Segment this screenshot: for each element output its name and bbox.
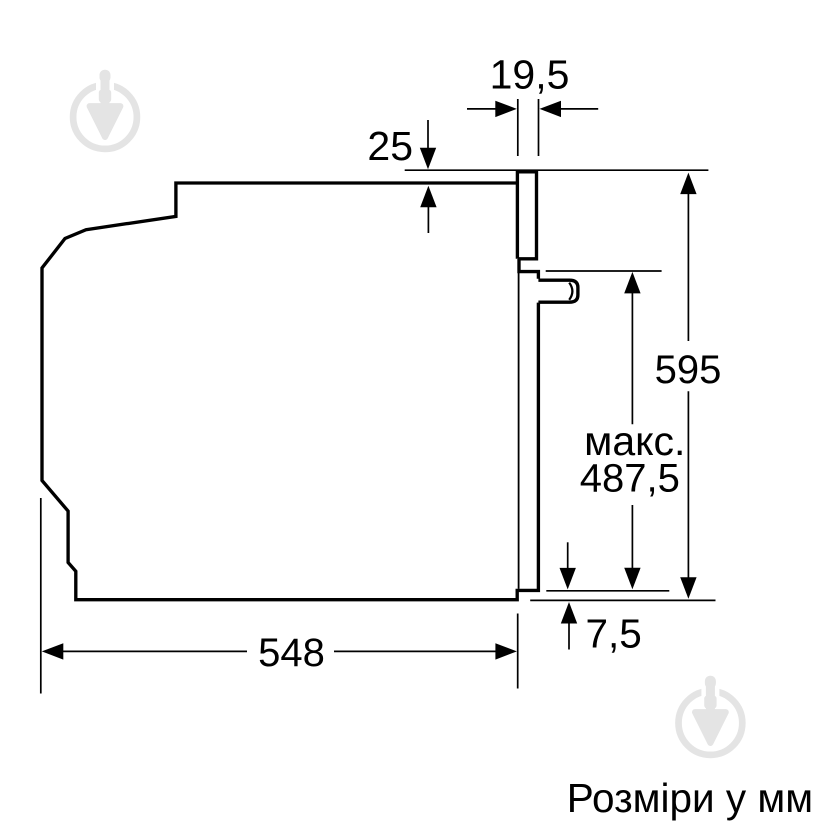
oven body outline (top, left side, bottom): [42, 183, 538, 600]
svg-text:7,5: 7,5: [586, 611, 642, 657]
dim 19,5 left extension line: [517, 99, 519, 156]
dim 19,5 right extension line: [538, 99, 540, 156]
dim 7,5 down arrow: [567, 542, 569, 570]
dim 548 left arrow: [42, 643, 64, 659]
svg-text:Розміри у мм: Розміри у мм: [567, 775, 813, 821]
dim 7,5 up arrow: [561, 602, 577, 624]
dim 595 line lower segment with bottom arrow: [687, 391, 689, 579]
dim 548 right arrow: [334, 650, 498, 652]
watermark trowel logo top-left: [73, 70, 137, 149]
dim 548 right extension line: [517, 614, 519, 689]
door edge step above handle: [519, 259, 538, 279]
svg-text:487,5: 487,5: [580, 457, 680, 501]
svg-text:548: 548: [258, 631, 325, 675]
dim 548 left extension line: [40, 498, 42, 694]
svg-text:25: 25: [367, 123, 413, 169]
extension line at door bottom (for dim 7,5): [546, 590, 669, 592]
door front thin line: [518, 272, 520, 589]
svg-text:19,5: 19,5: [490, 52, 570, 98]
svg-text:595: 595: [655, 348, 722, 392]
dim 487,5 line upper segment with top arrow: [631, 292, 633, 424]
dim 25 down arrow: [427, 120, 429, 150]
dim 19,5 left arrow: [467, 108, 499, 110]
extension line at handle top (for dim 487,5): [546, 270, 662, 272]
door handle: [538, 280, 578, 302]
dim 19,5 right arrow: [560, 108, 598, 110]
extension line at oven bottom (for dims 7,5 and 595): [530, 599, 715, 601]
front frame rectangle: [517, 172, 536, 259]
handle end cap arc: [569, 283, 572, 300]
extension line at frame top (for dims 25 and 595): [405, 169, 709, 171]
dim 487,5 line lower segment with bottom arrow: [631, 505, 633, 569]
dim 25 up arrow: [420, 186, 436, 208]
dim 595 line upper segment with top arrow: [687, 192, 689, 341]
watermark trowel logo bottom-right: [679, 676, 743, 755]
